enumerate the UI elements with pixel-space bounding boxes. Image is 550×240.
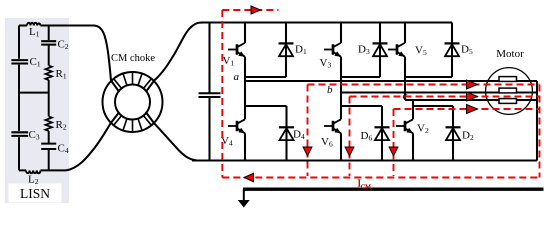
red CM path: phase b drop xyxy=(349,97,351,177)
wire: LISN bottom rail xyxy=(19,169,66,171)
svg-text:Motor: Motor xyxy=(496,48,524,60)
capacitor C2 xyxy=(41,41,56,44)
wire: motor common vertical xyxy=(536,81,538,161)
wire: LISN top rail xyxy=(19,25,69,27)
capacitor C1 xyxy=(11,60,28,63)
LISN shaded panel xyxy=(5,18,69,203)
wire: leg1 vertical xyxy=(244,23,246,161)
ground arrow xyxy=(243,189,245,200)
red CM path: phase c dashed xyxy=(394,108,540,110)
svg-text:a: a xyxy=(234,71,240,83)
wire: leg3 emitter/diode bar xyxy=(405,76,452,78)
svg-text:b: b xyxy=(327,84,333,96)
red CM path: phase a drop xyxy=(307,85,309,177)
red CM path: phase c drop xyxy=(393,109,395,176)
wire: LISN right vertical xyxy=(48,26,50,171)
ICM label xyxy=(358,179,372,191)
wire: leg3 lower bar xyxy=(413,105,453,107)
red arrow down c xyxy=(389,147,398,156)
diode D3 xyxy=(379,23,381,78)
red arrow left on bottom xyxy=(244,173,254,181)
diode D4 xyxy=(285,106,287,161)
wire: LISN top to choke xyxy=(69,26,119,92)
red CM path: phase b dashed xyxy=(350,96,540,98)
wire: leg1 lower bar xyxy=(245,105,287,107)
motor winding rect a xyxy=(499,77,517,82)
red arrow right phase c xyxy=(467,105,478,114)
red arrow right on top xyxy=(251,6,261,14)
transistor V5 xyxy=(388,43,405,57)
resistor R2 xyxy=(45,116,52,131)
inductor L2 xyxy=(26,170,41,173)
red arrow right phase b xyxy=(467,92,478,101)
LISN label box xyxy=(9,184,62,203)
wire: inverter bottom rail xyxy=(192,160,537,162)
wire: choke to inverter bottom rail xyxy=(146,113,197,161)
red CM path: left vertical xyxy=(221,10,223,178)
wire: leg3 lower vertical xyxy=(412,100,414,161)
capacitor C4 xyxy=(41,144,56,149)
wire: inverter top rail xyxy=(201,22,452,24)
red CM path: bottom horizontal xyxy=(222,177,539,179)
wire: LISN middle rail xyxy=(19,92,49,94)
wire: LISN left vertical xyxy=(18,26,20,171)
red arrow right phase a xyxy=(467,80,478,89)
wire: leg1 emitter/diode bar xyxy=(245,76,286,78)
wire: leg2 vertical xyxy=(340,23,342,161)
CM choke toroid core xyxy=(103,72,163,132)
red CM path: right vertical xyxy=(539,85,541,178)
transistor V3 xyxy=(324,43,341,57)
motor winding rect b xyxy=(499,88,517,93)
transistor V1 xyxy=(228,43,245,57)
diode D5 xyxy=(451,23,453,78)
red CM path: phase a dashed xyxy=(308,84,540,86)
wire: LISN bottom to choke xyxy=(66,113,119,171)
svg-text:LISN: LISN xyxy=(20,186,50,201)
wire: phase b line xyxy=(341,91,537,93)
wire: phase a line xyxy=(245,80,537,82)
capacitor C3 xyxy=(11,132,28,136)
motor circle xyxy=(486,68,533,115)
svg-text:c: c xyxy=(403,90,408,102)
transistor V4 xyxy=(228,119,245,133)
red arrow down a xyxy=(303,147,312,156)
CM choke winding hatches xyxy=(114,72,152,132)
wire: choke to inverter top rail xyxy=(146,23,204,92)
transistor V2 xyxy=(396,119,413,133)
motor winding rect c xyxy=(499,99,517,104)
ground plane thick line xyxy=(243,187,544,190)
diode D1 xyxy=(285,23,287,78)
diode D6 xyxy=(381,106,383,161)
transistor V6 xyxy=(324,119,341,133)
wire: leg3 upper vertical xyxy=(404,23,406,101)
diode D2 xyxy=(452,106,454,161)
capacitor DC-link xyxy=(208,23,210,161)
resistor R1 xyxy=(45,66,52,81)
red CM path: top horizontal xyxy=(222,9,278,11)
wire: leg2 lower bar xyxy=(341,105,382,107)
wire: leg2 emitter/diode bar xyxy=(341,76,380,78)
wire: phase c line xyxy=(405,99,537,101)
svg-text:CM choke: CM choke xyxy=(111,53,155,64)
red arrow down b xyxy=(345,147,354,156)
inductor L1 xyxy=(27,23,41,26)
